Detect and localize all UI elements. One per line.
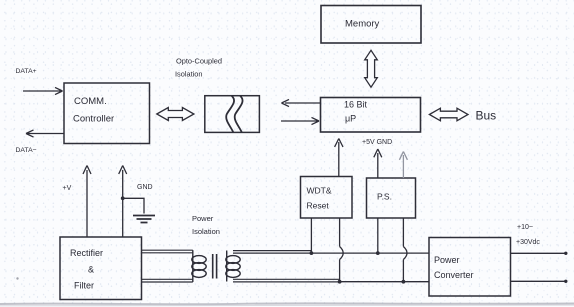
svg-text:Bus: Bus	[476, 109, 497, 123]
svg-text:Rectifier: Rectifier	[70, 248, 103, 258]
scan speck	[16, 277, 18, 279]
wire power converter output top	[511, 252, 566, 254]
wire top bus to power converter	[312, 252, 429, 254]
svg-text:+V: +V	[63, 185, 72, 192]
Rectifier & Filter box	[60, 237, 142, 300]
wire secondary bottom pair	[233, 279, 339, 282]
svg-text:μP: μP	[345, 114, 356, 124]
opto S-curve 1	[226, 96, 234, 132]
svg-text:Isolation: Isolation	[175, 70, 203, 79]
svg-text:Controller: Controller	[73, 114, 114, 125]
wire WDT right down with hop to bottom bus	[340, 218, 344, 282]
junction PS-bottom bus	[402, 280, 406, 284]
svg-text:Power: Power	[192, 214, 214, 223]
svg-text:Reset: Reset	[307, 201, 330, 211]
wire P.S. +5V arrow up	[374, 149, 382, 178]
wire bottom bus to power converter	[339, 281, 429, 283]
wire DATA- arrow out of COMM controller	[26, 130, 64, 137]
wire WDT to uP arrow up	[335, 139, 343, 177]
P.S. box	[367, 178, 416, 218]
transformer T1 primary winding	[192, 250, 194, 282]
svg-text:COMM.: COMM.	[74, 96, 107, 107]
wire PS right down with hop to bottom bus	[403, 218, 407, 282]
COMM. Controller box U-comm	[64, 83, 150, 144]
wire rectifier to transformer bottom pair	[142, 279, 193, 282]
junction on GND wire	[121, 196, 125, 200]
wire rectifier to transformer top pair	[142, 250, 193, 253]
svg-text:Opto-Coupled: Opto-Coupled	[176, 57, 222, 66]
Power Converter box	[429, 238, 511, 297]
wire P.S. GND arrow up (faint)	[399, 152, 407, 179]
svg-text:DATA−: DATA−	[16, 147, 37, 154]
wire DATA+ arrow into COMM controller	[23, 87, 63, 94]
svg-text:16 Bit: 16 Bit	[344, 100, 368, 110]
svg-text:GND: GND	[137, 184, 153, 191]
svg-text:&: &	[88, 265, 94, 275]
svg-text:Power: Power	[434, 255, 460, 265]
svg-text:DATA+: DATA+	[16, 68, 37, 75]
svg-text:Isolation: Isolation	[192, 227, 220, 236]
svg-text:+5V GND: +5V GND	[362, 139, 392, 146]
16 Bit uP box	[321, 98, 421, 133]
double arrow uP-Bus	[429, 108, 468, 121]
wire GND branch to ground	[123, 198, 144, 213]
ground symbol	[133, 216, 155, 223]
svg-text:Converter: Converter	[434, 270, 474, 280]
junction WDT-bottom bus	[338, 280, 342, 284]
svg-text:Memory: Memory	[345, 19, 380, 30]
double arrow Memory-uP	[365, 50, 378, 87]
wire opto to uP lower arrow (right pointing)	[281, 117, 319, 124]
junction PS-top bus	[376, 251, 380, 255]
wire WDT left down to top bus	[310, 218, 312, 253]
double arrow COMM-opto	[157, 108, 194, 121]
svg-text:WDT&: WDT&	[307, 186, 332, 196]
Memory box	[321, 6, 421, 44]
transformer T1 secondary winding	[226, 251, 228, 282]
svg-text:P.S.: P.S.	[377, 192, 392, 202]
svg-text:+30Vdc: +30Vdc	[516, 239, 540, 246]
wire +V arrow up from rectifier	[83, 166, 91, 238]
scan artifact bottom smudge	[0, 302, 574, 305]
wire secondary top pair	[233, 251, 312, 254]
opto S-curve 2	[235, 96, 243, 132]
wire PS left down to top bus	[377, 218, 379, 253]
wire GND arrow up from rectifier	[119, 166, 127, 238]
wire opto to uP upper arrow (left pointing)	[282, 99, 321, 106]
WDT & Reset box	[301, 177, 353, 219]
svg-text:Filter: Filter	[74, 281, 94, 291]
wire power converter output bottom	[511, 280, 566, 282]
svg-text:+10~: +10~	[517, 224, 533, 231]
opto-coupler isolation box	[205, 96, 260, 133]
transformer core	[213, 254, 217, 279]
junction WDT-top bus	[310, 251, 314, 255]
